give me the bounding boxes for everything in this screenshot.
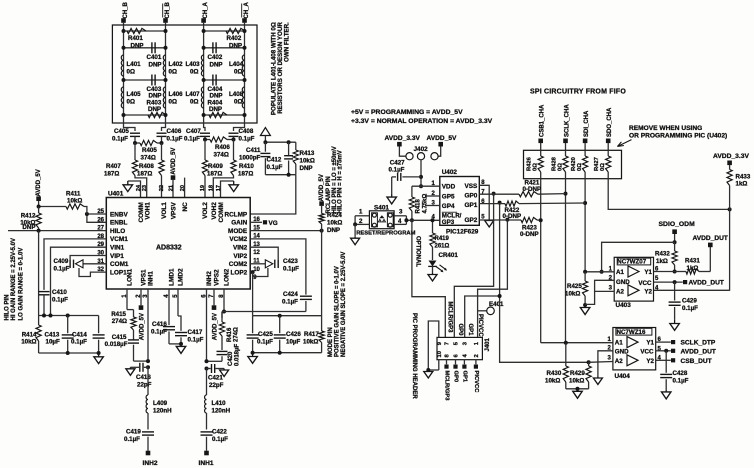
svg-text:0.1µF: 0.1µF xyxy=(167,136,183,143)
svg-text:R407: R407 xyxy=(106,163,121,170)
capacitor C427 xyxy=(389,160,422,181)
svg-text:AVDD_3.3V: AVDD_3.3V xyxy=(713,153,749,160)
svg-text:NEGATIVE GAIN SLOPE = 2.25V-5.: NEGATIVE GAIN SLOPE = 2.25V-5.0V xyxy=(341,252,347,357)
ground J401 pins 9 10 xyxy=(424,321,439,378)
resistor R405 xyxy=(133,140,164,161)
svg-text:SDIO_ODM: SDIO_ODM xyxy=(659,221,696,228)
svg-text:DNP: DNP xyxy=(229,43,242,50)
svg-text:MODE: MODE xyxy=(228,228,248,235)
svg-text:DNP: DNP xyxy=(300,165,313,172)
svg-text:LON1: LON1 xyxy=(127,268,134,285)
svg-text:HI GAIN RANGE = 2.25V-5.0V: HI GAIN RANGE = 2.25V-5.0V xyxy=(11,238,17,321)
svg-text:0Ω: 0Ω xyxy=(169,69,177,76)
wire VDD xyxy=(412,185,440,187)
svg-text:GP1: GP1 xyxy=(461,371,467,383)
svg-text:10: 10 xyxy=(437,351,443,357)
svg-text:187Ω: 187Ω xyxy=(207,171,222,178)
svg-text:0.1µF: 0.1µF xyxy=(239,136,255,143)
svg-text:17: 17 xyxy=(216,185,222,191)
svg-text:INH2: INH2 xyxy=(143,460,158,467)
svg-text:DNP: DNP xyxy=(210,62,223,69)
wire column CH_A-bar xyxy=(244,25,246,123)
svg-text:L408: L408 xyxy=(229,91,244,98)
node SCLK_DTP xyxy=(656,340,716,347)
svg-text:120nH: 120nH xyxy=(212,408,231,415)
wire bottom rail xyxy=(124,114,245,116)
wire S401 pin 4 xyxy=(394,216,412,225)
inductor L406 xyxy=(163,87,183,108)
wire cap rail 1 xyxy=(124,47,245,49)
svg-text:GP0: GP0 xyxy=(465,192,478,199)
pin labels U401 right xyxy=(224,211,260,281)
svg-text:10kΩ: 10kΩ xyxy=(327,220,342,227)
inductor L404 xyxy=(229,55,245,76)
svg-text:CH_A: CH_A xyxy=(244,1,250,18)
svg-text:0Ω: 0Ω xyxy=(533,163,539,171)
capacitor C415 xyxy=(105,330,148,361)
wire SDO bus down xyxy=(729,209,731,290)
svg-text:CH_B: CH_B xyxy=(165,1,171,18)
svg-text:7: 7 xyxy=(445,342,451,345)
wire column CH_B xyxy=(123,25,125,123)
svg-text:COMM: COMM xyxy=(218,202,225,222)
wire LOP2 down xyxy=(252,272,254,316)
svg-text:U403: U403 xyxy=(616,302,632,309)
svg-text:LOP1: LOP1 xyxy=(110,269,127,276)
label RCLAMP PIN block xyxy=(326,146,344,213)
svg-text:R406: R406 xyxy=(215,144,230,151)
svg-text:R431: R431 xyxy=(685,258,700,265)
svg-text:0-DNP: 0-DNP xyxy=(503,213,522,220)
svg-text:R402: R402 xyxy=(227,35,242,42)
svg-text:Y1: Y1 xyxy=(644,269,652,276)
svg-text:0.1µF: 0.1µF xyxy=(267,164,283,171)
svg-text:0.1µF: 0.1µF xyxy=(71,338,87,345)
svg-text:0-DNP: 0-DNP xyxy=(520,231,539,238)
node INH1 output pad xyxy=(199,451,214,467)
svg-text:C407: C407 xyxy=(186,128,201,135)
svg-text:187Ω: 187Ω xyxy=(137,171,152,178)
pin numbers U403 xyxy=(609,266,659,291)
svg-text:VPSV: VPSV xyxy=(171,201,178,219)
svg-text:R409: R409 xyxy=(208,163,223,170)
power AVDD_5V pin 21 xyxy=(171,148,177,198)
svg-text:GND: GND xyxy=(615,348,629,355)
node CSB_DUT xyxy=(656,358,712,365)
svg-text:L403: L403 xyxy=(186,61,201,68)
svg-text:R408: R408 xyxy=(139,163,154,170)
capacitor C416 xyxy=(151,289,181,344)
wire CSB1 down xyxy=(540,179,542,343)
resistor R408 xyxy=(137,143,164,178)
svg-text:L404: L404 xyxy=(229,61,244,68)
power AVDD_DUT R431 xyxy=(693,235,728,272)
svg-text:10kΩ: 10kΩ xyxy=(545,378,560,385)
capacitor C428 xyxy=(660,351,688,390)
svg-text:C405: C405 xyxy=(114,128,129,135)
connector J401 xyxy=(437,337,491,359)
svg-text:0.1µF: 0.1µF xyxy=(283,266,299,273)
svg-text:4.75kΩ: 4.75kΩ xyxy=(422,193,428,213)
svg-text:Y2: Y2 xyxy=(646,358,654,365)
capacitor C429 xyxy=(669,282,699,320)
wire GP1 to header xyxy=(465,201,502,338)
node CH_B input pad xyxy=(121,18,126,25)
svg-text:LO GAIN RANGE = 0-1.0V: LO GAIN RANGE = 0-1.0V xyxy=(18,248,24,321)
svg-text:22pF: 22pF xyxy=(137,382,152,389)
capacitor C420 xyxy=(207,344,241,366)
connector J402 xyxy=(406,146,438,160)
ground R425 xyxy=(580,305,590,315)
svg-text:A1: A1 xyxy=(616,269,624,276)
svg-text:J402: J402 xyxy=(414,146,429,153)
svg-text:+5V = PROGRAMMING = AVDD_5V: +5V = PROGRAMMING = AVDD_5V xyxy=(351,109,463,116)
ground pin 24 xyxy=(123,181,140,198)
svg-text:LOP2: LOP2 xyxy=(230,269,247,276)
wire VIN1 down xyxy=(51,247,107,315)
inductor L402 xyxy=(163,55,183,76)
svg-text:PICVCC: PICVCC xyxy=(473,371,479,394)
wire HILO xyxy=(8,229,106,233)
capacitor C411 xyxy=(239,142,270,175)
svg-text:C406: C406 xyxy=(167,128,182,135)
svg-text:NC7WZ07: NC7WZ07 xyxy=(617,258,646,265)
svg-text:VCM2: VCM2 xyxy=(229,236,247,243)
svg-text:0.1µF: 0.1µF xyxy=(257,339,273,346)
svg-text:C410: C410 xyxy=(52,289,67,296)
resistor R415 xyxy=(111,311,136,330)
svg-text:GP2: GP2 xyxy=(465,217,478,224)
svg-text:C418: C418 xyxy=(136,374,151,381)
svg-text:SDO_CHA: SDO_CHA xyxy=(607,107,613,137)
svg-text:AVDD_5V: AVDD_5V xyxy=(36,169,42,196)
svg-text:19: 19 xyxy=(200,185,206,191)
wire column CH_A xyxy=(203,25,205,123)
label CH_B-bar xyxy=(163,1,171,18)
svg-text:1: 1 xyxy=(359,209,363,216)
wire RCLMP to pin 16 xyxy=(250,175,296,214)
svg-text:0.1µF: 0.1µF xyxy=(52,297,68,304)
resistor R432 xyxy=(655,242,677,273)
svg-text:10µF: 10µF xyxy=(46,338,60,345)
svg-text:DNP: DNP xyxy=(148,106,161,113)
power AVDD_5V VPS2 xyxy=(212,289,219,340)
svg-text:C425: C425 xyxy=(258,331,273,338)
wire LON2 down xyxy=(222,289,226,314)
svg-text:Y2: Y2 xyxy=(644,289,652,296)
pin labels U401 top xyxy=(138,201,225,222)
wire cap rail 2 xyxy=(124,79,245,81)
svg-text:0Ω: 0Ω xyxy=(127,99,135,106)
ground S401 xyxy=(351,224,360,244)
svg-text:1kΩ: 1kΩ xyxy=(656,258,668,265)
svg-text:A2: A2 xyxy=(615,358,623,365)
resistor R429 xyxy=(569,362,591,389)
capacitor C422 xyxy=(201,429,229,451)
resistor R412 xyxy=(20,207,41,232)
svg-text:L406: L406 xyxy=(169,91,184,98)
pin numbers U404 xyxy=(608,337,662,361)
svg-text:R419: R419 xyxy=(435,236,450,242)
label CH_B xyxy=(123,1,129,18)
op-amp U401 AD8332 xyxy=(106,191,250,290)
node CH_A input pad xyxy=(201,18,206,25)
wire VIP1 to C409 xyxy=(70,256,106,260)
capacitor C401 xyxy=(147,42,162,68)
svg-text:22: 22 xyxy=(159,185,165,191)
svg-text:1000pF: 1000pF xyxy=(239,155,261,162)
svg-text:VCM1: VCM1 xyxy=(110,236,128,243)
svg-text:0.1µF: 0.1µF xyxy=(112,136,128,143)
svg-text:HILO PIN: HILO PIN xyxy=(5,294,11,320)
filter enclosure box xyxy=(112,25,257,123)
wire GP1 to A2 U404 xyxy=(498,294,613,364)
svg-text:HILO: HILO xyxy=(110,228,125,235)
resistor R410 xyxy=(231,140,254,178)
svg-text:LON2: LON2 xyxy=(224,268,231,285)
capacitor C402 xyxy=(208,42,223,68)
node SDIO_ODM xyxy=(659,221,696,244)
svg-text:L405: L405 xyxy=(127,91,142,98)
capacitor C403 xyxy=(147,75,162,100)
svg-text:374Ω: 374Ω xyxy=(214,152,229,159)
capacitor C425 xyxy=(247,316,274,353)
svg-text:0.1µF: 0.1µF xyxy=(212,436,228,443)
svg-text:187Ω: 187Ω xyxy=(238,171,253,178)
svg-text:AD8332: AD8332 xyxy=(156,245,182,252)
resistor R409 xyxy=(202,140,223,178)
svg-text:VG: VG xyxy=(269,220,278,227)
wire NC stub pin 20 xyxy=(184,178,186,198)
wire LOP1 hook xyxy=(79,268,106,277)
svg-text:R405: R405 xyxy=(142,147,157,154)
svg-text:GAIN: GAIN xyxy=(231,220,247,227)
wire LOP2 hook xyxy=(250,268,268,277)
label CR401 xyxy=(439,252,459,259)
wire R408 to pin 22 xyxy=(161,176,163,198)
inductor L408 xyxy=(229,87,245,108)
wire R409 to pin 19 xyxy=(204,176,206,198)
svg-text:120nH: 120nH xyxy=(153,408,172,415)
wire R407 to pin 23 xyxy=(135,176,147,198)
wire SDO to R433 xyxy=(608,179,731,212)
svg-text:DNP: DNP xyxy=(327,227,340,234)
svg-text:VIP2: VIP2 xyxy=(233,253,247,260)
pin numbers U401 top xyxy=(136,184,222,191)
resistor R418 xyxy=(409,186,428,222)
svg-text:261Ω: 261Ω xyxy=(435,244,450,250)
svg-text:R429: R429 xyxy=(570,370,585,377)
svg-text:MCLR/GP3: MCLR/GP3 xyxy=(446,302,452,334)
svg-text:C426: C426 xyxy=(286,331,301,338)
wire GP0 to header xyxy=(454,192,495,338)
svg-text:12: 12 xyxy=(253,250,260,256)
svg-text:AVDD_DUT: AVDD_DUT xyxy=(681,348,716,355)
svg-text:NC: NC xyxy=(182,202,189,212)
svg-text:0Ω: 0Ω xyxy=(234,99,242,106)
svg-text:L401: L401 xyxy=(127,61,142,68)
svg-text:0.1µF: 0.1µF xyxy=(54,266,70,273)
wire Y2 to SDO xyxy=(654,289,730,291)
label programming note 1 xyxy=(351,109,463,116)
svg-text:MODE PIN: MODE PIN xyxy=(328,327,334,357)
label RESET/REPROGRAM xyxy=(356,230,415,236)
svg-text:VOL2: VOL2 xyxy=(202,202,209,219)
resistor R402 xyxy=(226,28,245,49)
svg-text:+3.3V = NORMAL OPERATION = AVD: +3.3V = NORMAL OPERATION = AVDD_3.3V xyxy=(351,118,493,125)
capacitor C406 xyxy=(157,123,183,143)
svg-text:10µF: 10µF xyxy=(286,339,300,346)
power AVDD_5V left xyxy=(36,169,42,208)
capacitor C410 xyxy=(39,239,107,316)
svg-text:VSS: VSS xyxy=(465,183,479,190)
resistor R407 xyxy=(104,143,138,178)
svg-text:GND: GND xyxy=(616,279,630,286)
label REMOVE WHEN USING xyxy=(617,125,727,147)
capacitor C421 xyxy=(207,364,229,389)
svg-text:C420: C420 xyxy=(228,351,234,366)
svg-text:R413: R413 xyxy=(300,150,315,157)
label HILO PIN gain ranges xyxy=(5,238,25,321)
inductor L405 xyxy=(121,87,141,108)
svg-text:VPS1: VPS1 xyxy=(141,269,148,286)
wire LON1 to R415 xyxy=(127,289,134,317)
svg-text:0.1µF: 0.1µF xyxy=(673,378,689,385)
wire C425 rail xyxy=(253,314,322,318)
capacitor C419 xyxy=(124,429,154,451)
svg-text:DNP: DNP xyxy=(209,106,222,113)
svg-text:10kΩ: 10kΩ xyxy=(303,339,318,346)
svg-text:0Ω: 0Ω xyxy=(600,163,606,171)
wire HILO to R414 xyxy=(38,231,40,316)
wire R410 to pin 18 xyxy=(213,176,233,198)
svg-text:DNP: DNP xyxy=(131,43,144,50)
svg-text:C401: C401 xyxy=(147,54,162,61)
ground R429 R430 xyxy=(566,387,589,399)
svg-text:0.1µF: 0.1µF xyxy=(389,166,405,173)
svg-text:Y1: Y1 xyxy=(646,340,654,347)
svg-text:INH2: INH2 xyxy=(206,271,213,286)
resistor R431 xyxy=(675,258,711,275)
capacitor C417 xyxy=(175,289,204,344)
svg-text:C419: C419 xyxy=(126,429,141,436)
svg-text:R417: R417 xyxy=(304,331,319,338)
svg-text:0.1µF: 0.1µF xyxy=(282,299,298,306)
svg-text:CH_B: CH_B xyxy=(123,1,129,18)
svg-text:GP1: GP1 xyxy=(465,202,478,209)
wire S401 pin 2 xyxy=(353,216,369,227)
capacitor C418 xyxy=(126,363,152,389)
resistor R423 xyxy=(479,217,542,238)
pin numbers J401 xyxy=(437,341,480,357)
resistor R414 xyxy=(21,316,41,354)
svg-text:C421: C421 xyxy=(208,375,223,382)
resistor R433 xyxy=(727,170,751,210)
svg-text:GP4: GP4 xyxy=(442,203,455,210)
wire A1 U404 xyxy=(541,341,613,345)
wire J402 to VDD xyxy=(419,160,423,188)
svg-text:RESET/REPROGRAM: RESET/REPROGRAM xyxy=(356,230,415,236)
power AVDD_DUT VCC xyxy=(654,280,724,287)
svg-text:AVDD_DUT: AVDD_DUT xyxy=(693,235,728,242)
svg-text:C428: C428 xyxy=(673,370,688,377)
svg-text:SCLK_CHA: SCLK_CHA xyxy=(565,104,571,137)
svg-text:AVDD_3.3V: AVDD_3.3V xyxy=(385,135,421,142)
svg-text:0Ω: 0Ω xyxy=(557,163,563,171)
ground VSS xyxy=(479,185,493,227)
svg-text:L407: L407 xyxy=(186,91,201,98)
resistor R413 xyxy=(293,142,315,175)
svg-text:ENBL: ENBL xyxy=(110,220,127,227)
svg-text:C422: C422 xyxy=(212,429,227,436)
resistor R421 xyxy=(479,179,565,197)
capacitor C412 xyxy=(267,142,294,175)
node INH2 output pad xyxy=(143,451,158,467)
wire SCLK down xyxy=(564,179,568,343)
wire INH1 down xyxy=(146,289,150,369)
svg-text:0.1µF: 0.1µF xyxy=(188,337,204,344)
capacitor C409 xyxy=(54,258,107,273)
svg-text:22pF: 22pF xyxy=(209,382,224,389)
capacitor C413 xyxy=(45,316,74,354)
svg-text:PIC PROGRAMMING HEADER: PIC PROGRAMMING HEADER xyxy=(411,313,417,399)
resistor R424 xyxy=(319,174,342,234)
svg-text:187Ω: 187Ω xyxy=(104,171,119,178)
test point E401 xyxy=(478,301,504,315)
wire GP5 GP4 stubs xyxy=(425,196,440,206)
inductor L410 xyxy=(205,369,231,430)
svg-text:18: 18 xyxy=(209,185,215,191)
wire MCLR to header xyxy=(412,220,452,337)
wire INH2 down xyxy=(205,289,209,371)
svg-text:A2: A2 xyxy=(616,289,624,296)
svg-text:COM2: COM2 xyxy=(229,261,248,268)
svg-text:10kΩ: 10kΩ xyxy=(569,378,584,385)
node PICVCC pad xyxy=(473,360,479,394)
svg-text:GP3: GP3 xyxy=(442,219,455,226)
wire S401 pin 3 xyxy=(394,209,406,216)
pin labels U401 left xyxy=(97,209,129,276)
svg-text:CH_A: CH_A xyxy=(203,1,209,18)
svg-text:U404: U404 xyxy=(615,373,631,380)
power AVDD_DUT U404 xyxy=(656,348,716,355)
inductor L409 xyxy=(146,367,172,429)
svg-text:R433: R433 xyxy=(736,174,751,181)
svg-text:VIP1: VIP1 xyxy=(110,253,124,260)
svg-text:A1: A1 xyxy=(615,340,623,347)
svg-text:J401: J401 xyxy=(485,337,491,351)
wire SDIO to A1 xyxy=(600,242,675,273)
LED CR401 xyxy=(428,247,447,272)
svg-text:CR401: CR401 xyxy=(439,252,459,259)
svg-text:10kΩ: 10kΩ xyxy=(565,291,580,298)
svg-text:1kΩ: 1kΩ xyxy=(736,181,748,188)
label POPULATE note xyxy=(271,22,291,115)
svg-text:HILO PIN = H = ±75mV: HILO PIN = H = ±75mV xyxy=(338,150,344,213)
capacitor C414 xyxy=(71,316,105,354)
svg-text:CSB_DUT: CSB_DUT xyxy=(681,358,712,365)
svg-text:R416: R416 xyxy=(227,327,233,342)
svg-text:C412: C412 xyxy=(267,157,282,164)
ground HILO divider xyxy=(39,351,104,364)
svg-text:GP0: GP0 xyxy=(457,324,463,337)
svg-text:C409: C409 xyxy=(54,258,69,265)
node GP0 pad xyxy=(452,360,458,382)
power AVDD_5V J402 xyxy=(427,135,458,156)
svg-text:C408: C408 xyxy=(239,128,254,135)
microcontroller U402 PIC12F629 xyxy=(440,169,480,236)
node MCLR/GP3 pad xyxy=(443,360,449,402)
